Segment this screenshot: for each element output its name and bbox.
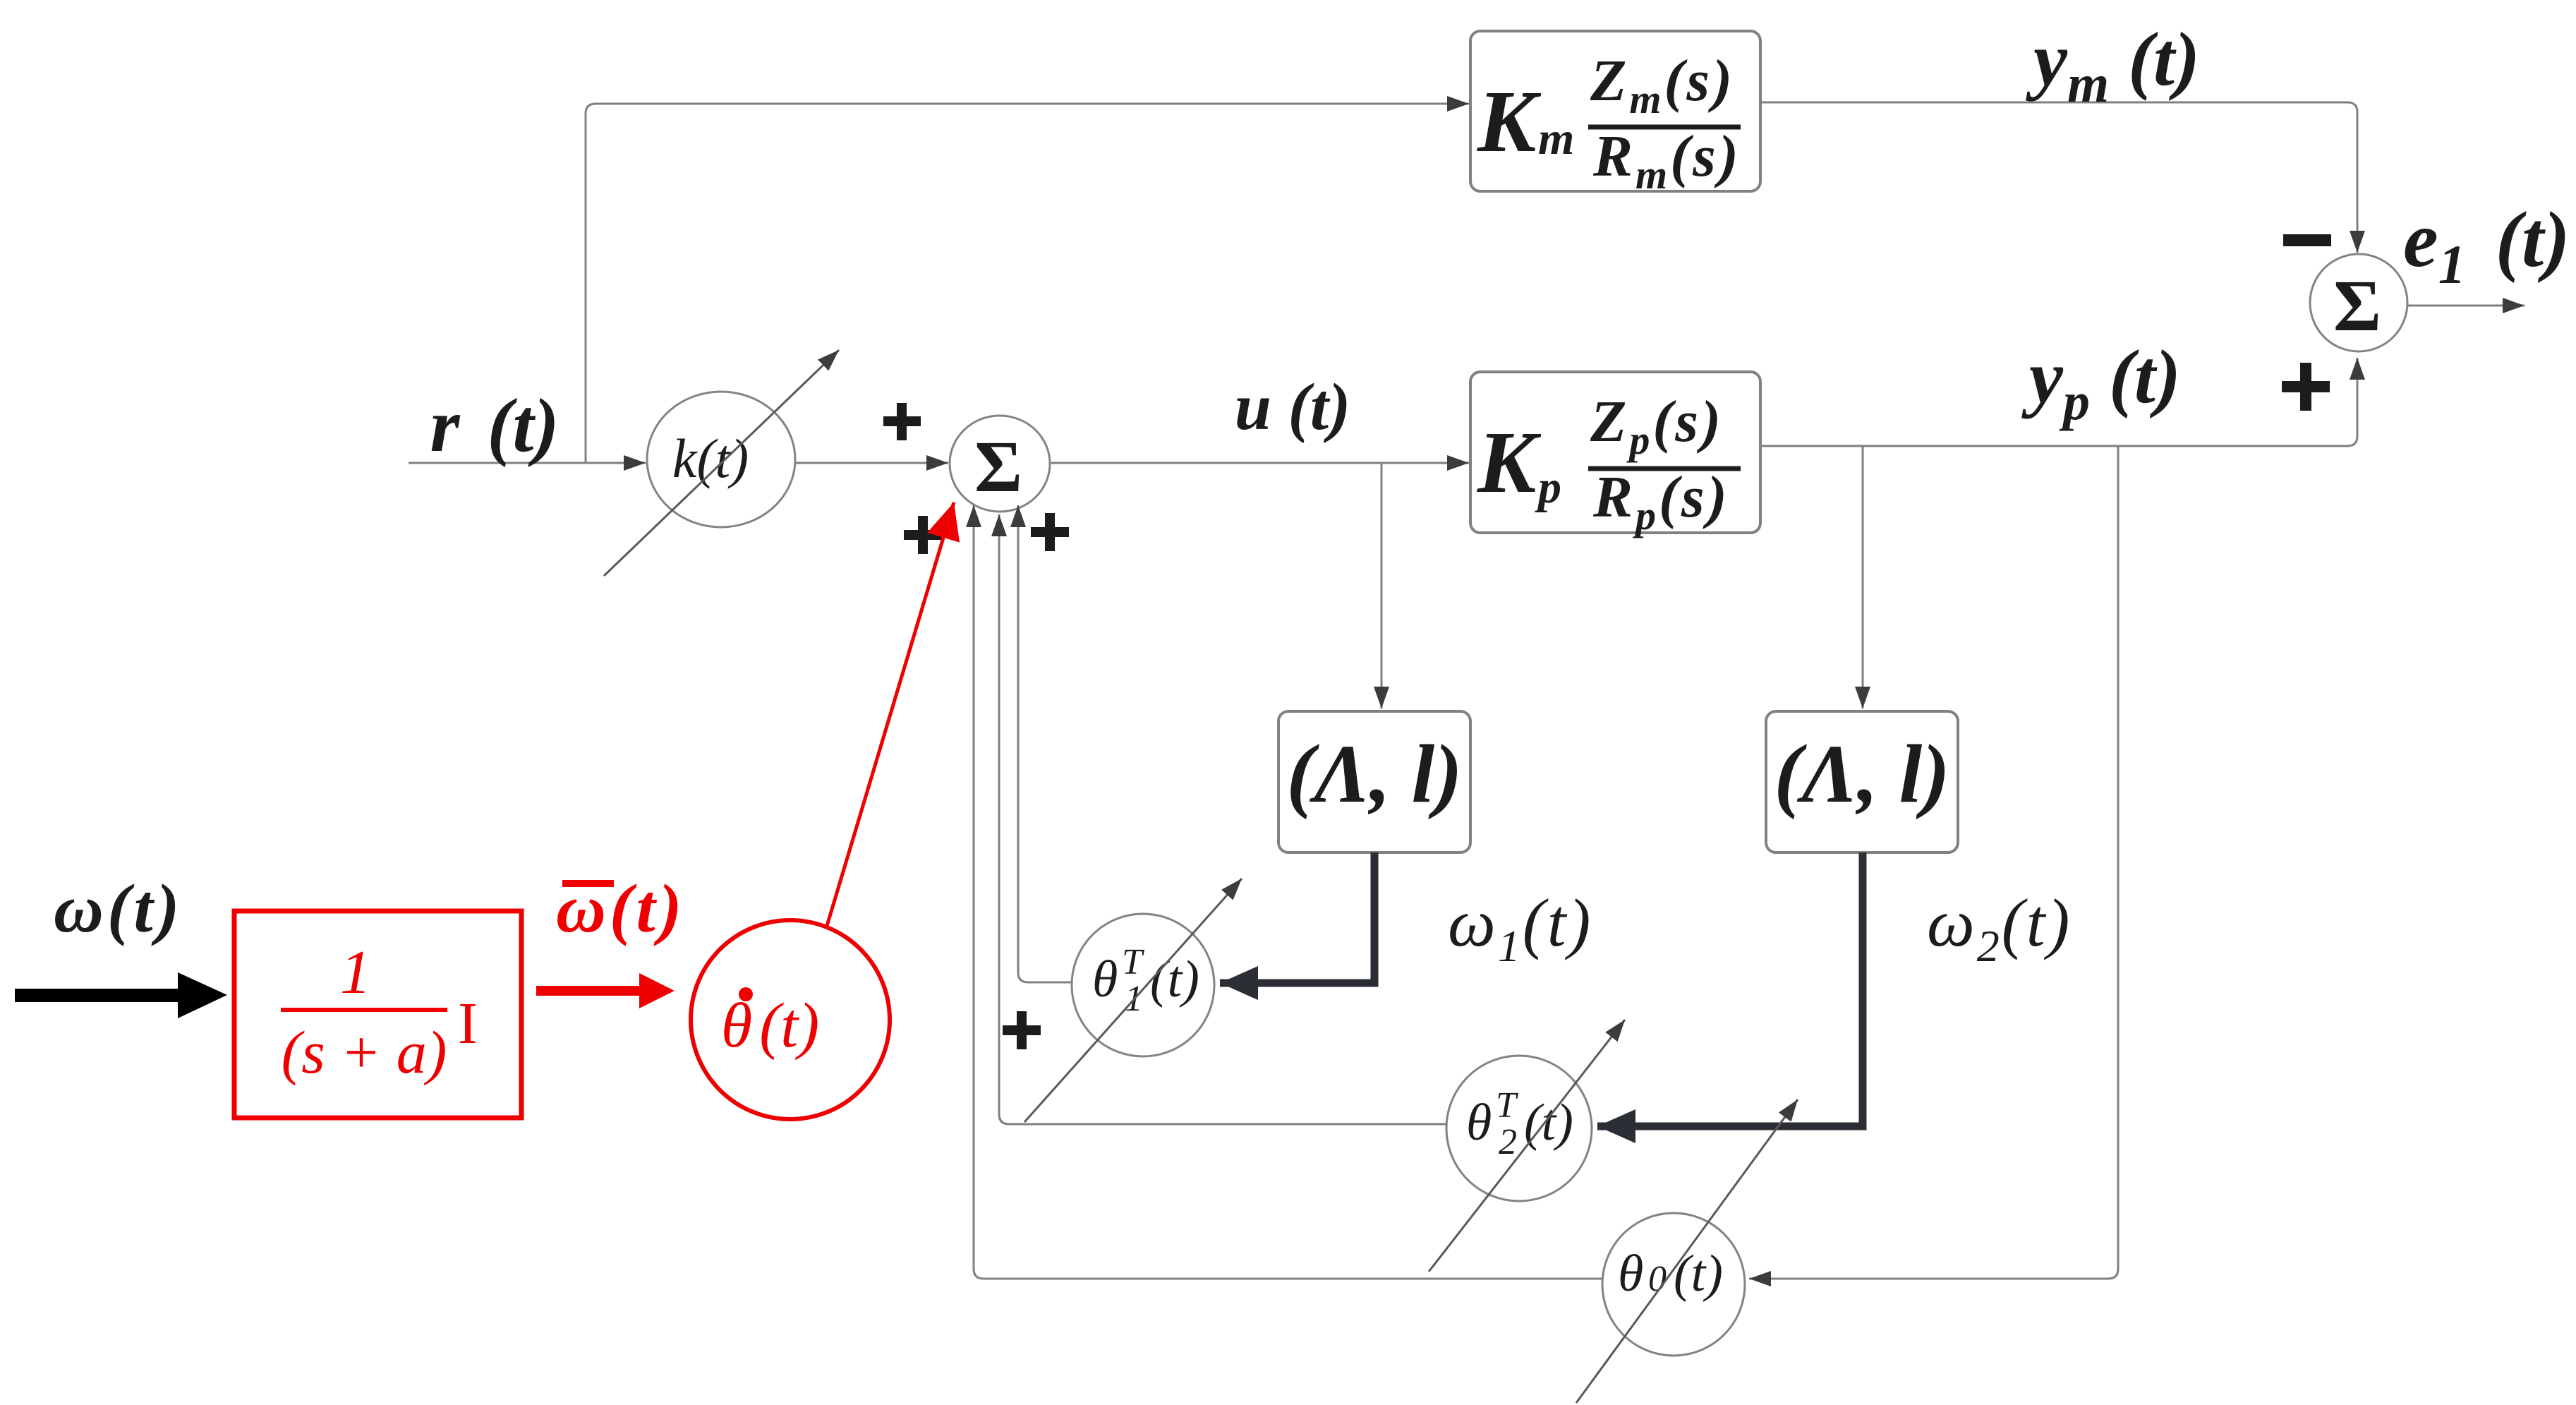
svg-text:ω(t): ω(t) <box>54 871 183 947</box>
svg-text:Σ: Σ <box>974 426 1022 507</box>
wire branch yp down to filter 2 <box>1862 446 1864 708</box>
arrow black disturbance input <box>15 972 227 1018</box>
svg-text:p: p <box>1535 462 1561 513</box>
block Km reference model <box>1470 31 1760 191</box>
wire yp from plant to sum e1 <box>1760 358 2357 446</box>
wire r(t) input line <box>409 462 646 464</box>
svg-text:(Λ, l): (Λ, l) <box>1286 728 1462 820</box>
node omega2(t) label <box>1927 885 2072 971</box>
gain theta1 circle <box>1072 914 1214 1056</box>
svg-text:yp (t): yp (t) <box>2021 335 2181 431</box>
arrow diagonal through theta0 <box>1576 1099 1798 1403</box>
svg-text:θ: θ <box>1618 1245 1643 1303</box>
node omega(t) disturbance label <box>54 871 183 947</box>
arrow red theta-dot to summer <box>827 502 954 926</box>
wire theta0 output up to summer <box>974 505 1602 1279</box>
block filter 1 (Lambda,l) <box>1278 711 1470 852</box>
svg-text:(t): (t) <box>1150 951 1199 1008</box>
svg-text:Zp(s): Zp(s) <box>1590 389 1724 463</box>
svg-text:Zm(s): Zm(s) <box>1590 48 1735 122</box>
node ym(t) label <box>2026 18 2200 114</box>
svg-text:2: 2 <box>1499 1122 1517 1162</box>
summer u circle <box>950 416 1050 512</box>
svg-text:ω1(t): ω1(t) <box>1448 885 1592 971</box>
block filter 2 (Lambda,l) <box>1766 711 1958 852</box>
plus sign below-right of summer <box>1031 513 1069 551</box>
wire u(t) from summer to plant <box>1050 462 1469 464</box>
node omega1(t) label <box>1448 885 1592 971</box>
svg-text:K: K <box>1477 73 1542 171</box>
svg-text:(Λ, l): (Λ, l) <box>1774 728 1949 820</box>
wire omega2 thick from filter2 to theta2 <box>1597 852 1863 1126</box>
block red filter 1/(s+a) I <box>234 911 521 1118</box>
svg-text:Rp(s): Rp(s) <box>1592 464 1730 538</box>
svg-text:(s + a): (s + a) <box>282 1018 447 1086</box>
svg-text:θ: θ <box>1092 951 1118 1008</box>
plus sign near theta1 feedback <box>1003 1011 1041 1049</box>
svg-text:ym (t): ym (t) <box>2026 18 2200 114</box>
svg-text:Σ: Σ <box>2333 265 2381 346</box>
node yp(t) label <box>2021 335 2181 431</box>
svg-text:m: m <box>1538 113 1574 164</box>
svg-text:Rm(s): Rm(s) <box>1592 123 1741 198</box>
plus sign below-left of summer <box>904 516 942 554</box>
arrow diagonal through k(t) <box>604 350 839 576</box>
plus sign above summer input <box>883 403 921 440</box>
svg-text:ω2(t): ω2(t) <box>1927 885 2072 971</box>
wire branch yp down to theta0 <box>1749 446 2118 1279</box>
block Kp plant <box>1470 372 1760 533</box>
arrow diagonal through theta2 <box>1429 1020 1625 1272</box>
svg-text:K: K <box>1477 414 1542 512</box>
svg-text:(t): (t) <box>1524 1094 1573 1152</box>
node e1(t) label <box>2403 196 2570 295</box>
svg-text:I: I <box>458 991 478 1056</box>
block Kp label <box>1477 389 1741 538</box>
wire theta1 output up to summer <box>1018 505 1072 982</box>
svg-text:T: T <box>1496 1085 1518 1126</box>
gain theta2 circle <box>1446 1056 1592 1201</box>
node omega-bar(t) label <box>556 871 685 947</box>
svg-text:(t): (t) <box>1674 1245 1723 1303</box>
wire branch up to reference model <box>586 104 1469 463</box>
svg-text:u (t): u (t) <box>1235 370 1351 444</box>
svg-text:θ(t): θ(t) <box>721 991 819 1061</box>
node r(t) label <box>430 384 560 468</box>
minus sign <box>2283 234 2331 246</box>
gain k(t) circle <box>647 392 795 527</box>
wire omega1 thick from filter1 to theta1 <box>1220 852 1374 983</box>
node u(t) label <box>1235 370 1351 444</box>
svg-text:k(t): k(t) <box>672 428 749 489</box>
arrow diagonal through theta1 <box>1024 879 1242 1122</box>
wire branch u down to filter 1 <box>1381 463 1383 708</box>
svg-text:T: T <box>1122 942 1144 982</box>
wire ym from Km to sum e1 <box>1760 102 2357 253</box>
arrow red from filter to theta-dot <box>536 973 675 1008</box>
svg-text:θ: θ <box>1466 1094 1492 1152</box>
svg-text:r (t): r (t) <box>430 384 560 468</box>
wire k(t) to summer <box>795 462 948 464</box>
svg-text:1: 1 <box>340 939 371 1007</box>
gain theta0 circle <box>1602 1213 1745 1356</box>
wire theta2 output up to summer <box>999 514 1446 1124</box>
wire e1 output arrow <box>2407 305 2524 307</box>
gain theta-dot circle red <box>691 920 890 1119</box>
svg-text:e1 (t): e1 (t) <box>2403 196 2570 295</box>
plus sign near e1 summer <box>2282 363 2330 411</box>
summer e1 circle <box>2310 254 2407 351</box>
block Km label <box>1477 48 1741 198</box>
